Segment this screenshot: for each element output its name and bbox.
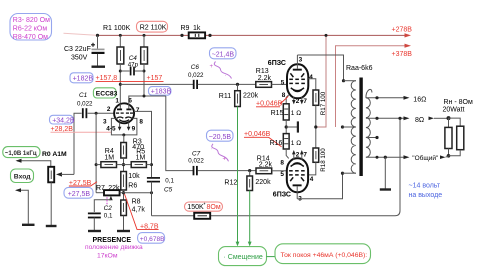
wire wiper to C2 [94,200,111,212]
annotation squiggle upper [214,62,231,79]
svg-text:· Смещение: · Смещение [224,254,263,261]
ECC83 grid dashes [116,112,133,114]
svg-text:+157,8: +157,8 [96,75,118,82]
svg-text:R3- 820 Ом: R3- 820 Ом [13,17,50,24]
svg-text:Raa-6k6: Raa-6k6 [346,65,373,72]
svg-text:Вход: Вход [14,174,31,181]
resistor R5 [124,149,152,168]
wire 4 ohm stub [366,137,377,139]
svg-text:+8,7В: +8,7В [140,224,159,231]
resistor R16 [270,134,302,159]
svg-text:5: 5 [280,171,284,178]
svg-text:+34,2В: +34,2В [52,117,75,124]
wire +378V line [336,46,409,127]
wire anode-B to C7 [166,96,193,171]
label +27,5V blue [64,187,93,198]
svg-text:17кОм: 17кОм [97,253,118,260]
resistor R11 [219,84,259,106]
svg-text:0,1: 0,1 [165,177,174,184]
wire wiper to C1 [74,113,82,174]
ground input jack [22,224,35,226]
wire anode-A row to C6 [120,83,193,85]
svg-text:6ПЗС: 6ПЗС [273,191,291,198]
svg-text:0,1: 0,1 [104,213,113,220]
ground below C3 [92,65,106,67]
label source ~1,0V 1kHz [3,147,40,158]
svg-text:9: 9 [132,125,136,132]
svg-text:2: 2 [107,106,111,113]
wire center tap [341,125,344,128]
resistor R4 [96,148,123,168]
svg-text:2: 2 [296,98,300,105]
note box R3/R6/R8 values [10,14,52,41]
svg-text:R9: R9 [181,25,190,32]
resistor R18 100 [308,148,327,175]
svg-text:220k: 220k [243,93,259,100]
svg-text:ECC83: ECC83 [96,91,118,98]
resistor R15 [271,104,302,134]
resistor 150K feedback [185,202,223,219]
wiper position dashed mark [106,197,108,204]
capacitor C6 [188,64,256,89]
potentiometer R7 [96,185,124,200]
capacitor C4 [119,55,146,75]
svg-text:~1,0В 1кГц: ~1,0В 1кГц [5,150,37,157]
label ~20,5V [207,130,234,141]
svg-text:+: + [210,64,214,70]
resistor R2 [137,21,168,96]
svg-text:R6: R6 [128,183,137,190]
wire input ground leg [17,190,29,223]
label +182V [70,73,93,83]
svg-text:47p: 47p [128,61,139,68]
ground C2 [88,230,101,232]
svg-text:8: 8 [280,159,284,166]
svg-text:R8: R8 [132,198,141,205]
svg-text:R0 A1M: R0 A1M [42,151,67,158]
resistor R6 [121,172,140,201]
label +34,2V [50,115,75,124]
label Ток покоя [275,244,371,264]
pentode 6П3С upper [268,55,313,99]
ECC83 plate lead pin6 [129,96,166,109]
wire tube2 anode to transformer [297,173,342,199]
svg-text:8Ω: 8Ω [415,117,424,124]
svg-text:6ПЗС: 6ПЗС [268,60,286,67]
heater arrows tube2 pins 2 7 [293,153,295,160]
svg-text:R13: R13 [256,68,269,75]
svg-text:7: 7 [303,98,307,105]
ground R8 [117,230,130,232]
svg-text:10k: 10k [128,173,140,180]
wire tube1 anode to transformer [297,55,343,81]
wire tube1 screen pin4 to R17 [308,79,316,90]
svg-text:положение движка: положение движка [85,244,143,251]
svg-text:R1 100K: R1 100K [103,25,131,32]
svg-text:C2: C2 [104,205,113,212]
tube ECC83 envelope [114,103,134,123]
wire 8 ohm tap [366,117,407,119]
transformer secondary [366,89,372,97]
resistor R17 100 [313,90,327,148]
svg-text:R18 100: R18 100 [320,148,327,172]
svg-text:1M: 1M [104,155,114,162]
svg-text:1 Ω: 1 Ω [291,110,301,117]
label Смещение [219,247,267,266]
svg-text:*: * [204,203,206,209]
resistor load right [449,118,461,126]
label +183V [149,87,172,96]
ground cathode bar [286,126,298,128]
svg-text:+278В: +278В [392,27,413,34]
svg-text:R17 100: R17 100 [320,91,327,115]
wire input to pot [17,161,51,167]
wire ECC83 pin7 to R5 column [134,111,151,177]
wire bias link green [267,256,277,258]
svg-text:150K: 150K [187,204,204,211]
capacitor C3 [64,34,105,66]
svg-text:R11: R11 [219,93,231,100]
ECC83 cathode arcs [117,117,123,118]
svg-text:+182В: +182В [73,76,94,83]
label ECC83 [93,88,117,98]
capacitor C2 [88,205,113,230]
svg-text:на выходе: на выходе [409,192,443,199]
svg-text:~21,4В: ~21,4В [212,51,235,58]
svg-text:+157: +157 [147,75,163,82]
potentiometer R0 [48,167,74,183]
label +0,678V [138,233,166,244]
svg-text:C1: C1 [79,92,88,99]
svg-text:1 Ω: 1 Ω [291,140,301,147]
wire screen supply maroon [316,35,326,127]
svg-text:Rн - 8Ом: Rн - 8Ом [444,99,473,106]
svg-text:+27,5В: +27,5В [68,191,91,198]
svg-text:0,022: 0,022 [188,72,204,79]
svg-text:+: + [223,157,227,163]
heater arrows tube1 pins 2 7 [293,97,295,102]
svg-text:5: 5 [281,79,285,86]
capacitor C5 [147,177,175,215]
svg-text:4: 4 [310,176,314,183]
wire 16 ohm tap [366,97,407,99]
svg-text:C6: C6 [191,64,200,71]
wire tube1 cathode to R15 [286,95,289,104]
transformer core [359,78,362,177]
svg-text:8: 8 [282,92,286,99]
svg-text:1k: 1k [193,25,201,32]
svg-text:220k: 220k [255,179,271,186]
ECC83 plate bars [117,109,122,111]
svg-text:4-5: 4-5 [106,125,116,132]
resistor R9 [180,25,211,38]
svg-text:6: 6 [128,97,132,104]
svg-text:R8-470 Ом: R8-470 Ом [13,34,48,41]
resistor R12 [224,171,271,191]
resistor R3 [121,138,144,171]
resistor R13 [256,68,287,87]
resistor R14 [256,155,287,173]
capacitor C1 [77,92,115,118]
svg-text:C5: C5 [164,186,173,193]
svg-text:+0,678В: +0,678В [140,236,165,243]
wire bias green R12 [249,191,251,244]
resistor R8 [121,198,146,230]
svg-text:4: 4 [309,74,313,81]
feedback wire [152,215,195,217]
capacitor C7 [188,150,256,175]
svg-text:2: 2 [296,151,300,158]
wire pot bottom to ground [50,182,52,225]
resistor load left [448,118,450,127]
label +8,7V red [125,194,159,229]
wire +278V rail [64,33,97,35]
svg-text:"Общий": "Общий" [412,154,439,162]
svg-text:8Ом: 8Ом [207,204,221,211]
wire junction to C5 column [124,192,152,194]
svg-text:R6-22 кОм: R6-22 кОм [13,25,48,32]
svg-text:C7: C7 [192,150,201,157]
resistor R1 [103,25,131,107]
svg-text:Ток покоя +46мА (+0,046В):: Ток покоя +46мА (+0,046В): [281,252,368,259]
wire ECC83 cathodes tie [111,118,136,134]
pentode 6П3С lower [273,158,314,202]
label Вход [11,169,34,183]
svg-text:7: 7 [136,107,140,114]
svg-text:16Ω: 16Ω [413,96,426,103]
svg-text:+183В: +183В [151,88,172,95]
ground pot [46,225,57,227]
svg-text:~14 вольт: ~14 вольт [409,183,441,190]
svg-text:0,022: 0,022 [188,158,204,165]
label ~21,4V [210,48,237,59]
svg-text:3: 3 [299,57,303,64]
svg-text:350V: 350V [71,54,88,61]
svg-text:8: 8 [139,118,143,125]
wire grid-A column [95,113,97,193]
wire bias green R11 [237,107,239,244]
ECC83 heater arrows pins 4-5 9 [119,123,121,129]
svg-text:PRESENCE: PRESENCE [93,237,132,244]
svg-text:0,022: 0,022 [77,101,93,108]
svg-text:20Watt: 20Watt [443,107,465,114]
svg-text:1: 1 [115,97,119,104]
svg-text:7: 7 [303,151,307,158]
svg-text:C3 22uF: C3 22uF [64,46,91,53]
ECC83 plate lead pin1 [119,104,121,109]
svg-text:R12: R12 [224,179,237,186]
wire common tap [366,156,407,158]
svg-text:R15: R15 [271,110,284,117]
annotation squiggle lower [212,144,229,162]
svg-text:+378В: +378В [392,51,413,58]
svg-text:4,7k: 4,7k [132,207,146,214]
svg-text:~20,5В: ~20,5В [209,134,232,141]
svg-text:R16: R16 [270,140,283,147]
wire 8ohm to load [429,117,435,121]
wire common to load [440,155,446,159]
node +378V arrow [405,44,412,48]
svg-text:1M: 1M [136,155,146,162]
svg-text:R2 110K: R2 110K [140,25,167,32]
ground secondary [384,157,386,188]
node +278V arrow [405,33,412,37]
